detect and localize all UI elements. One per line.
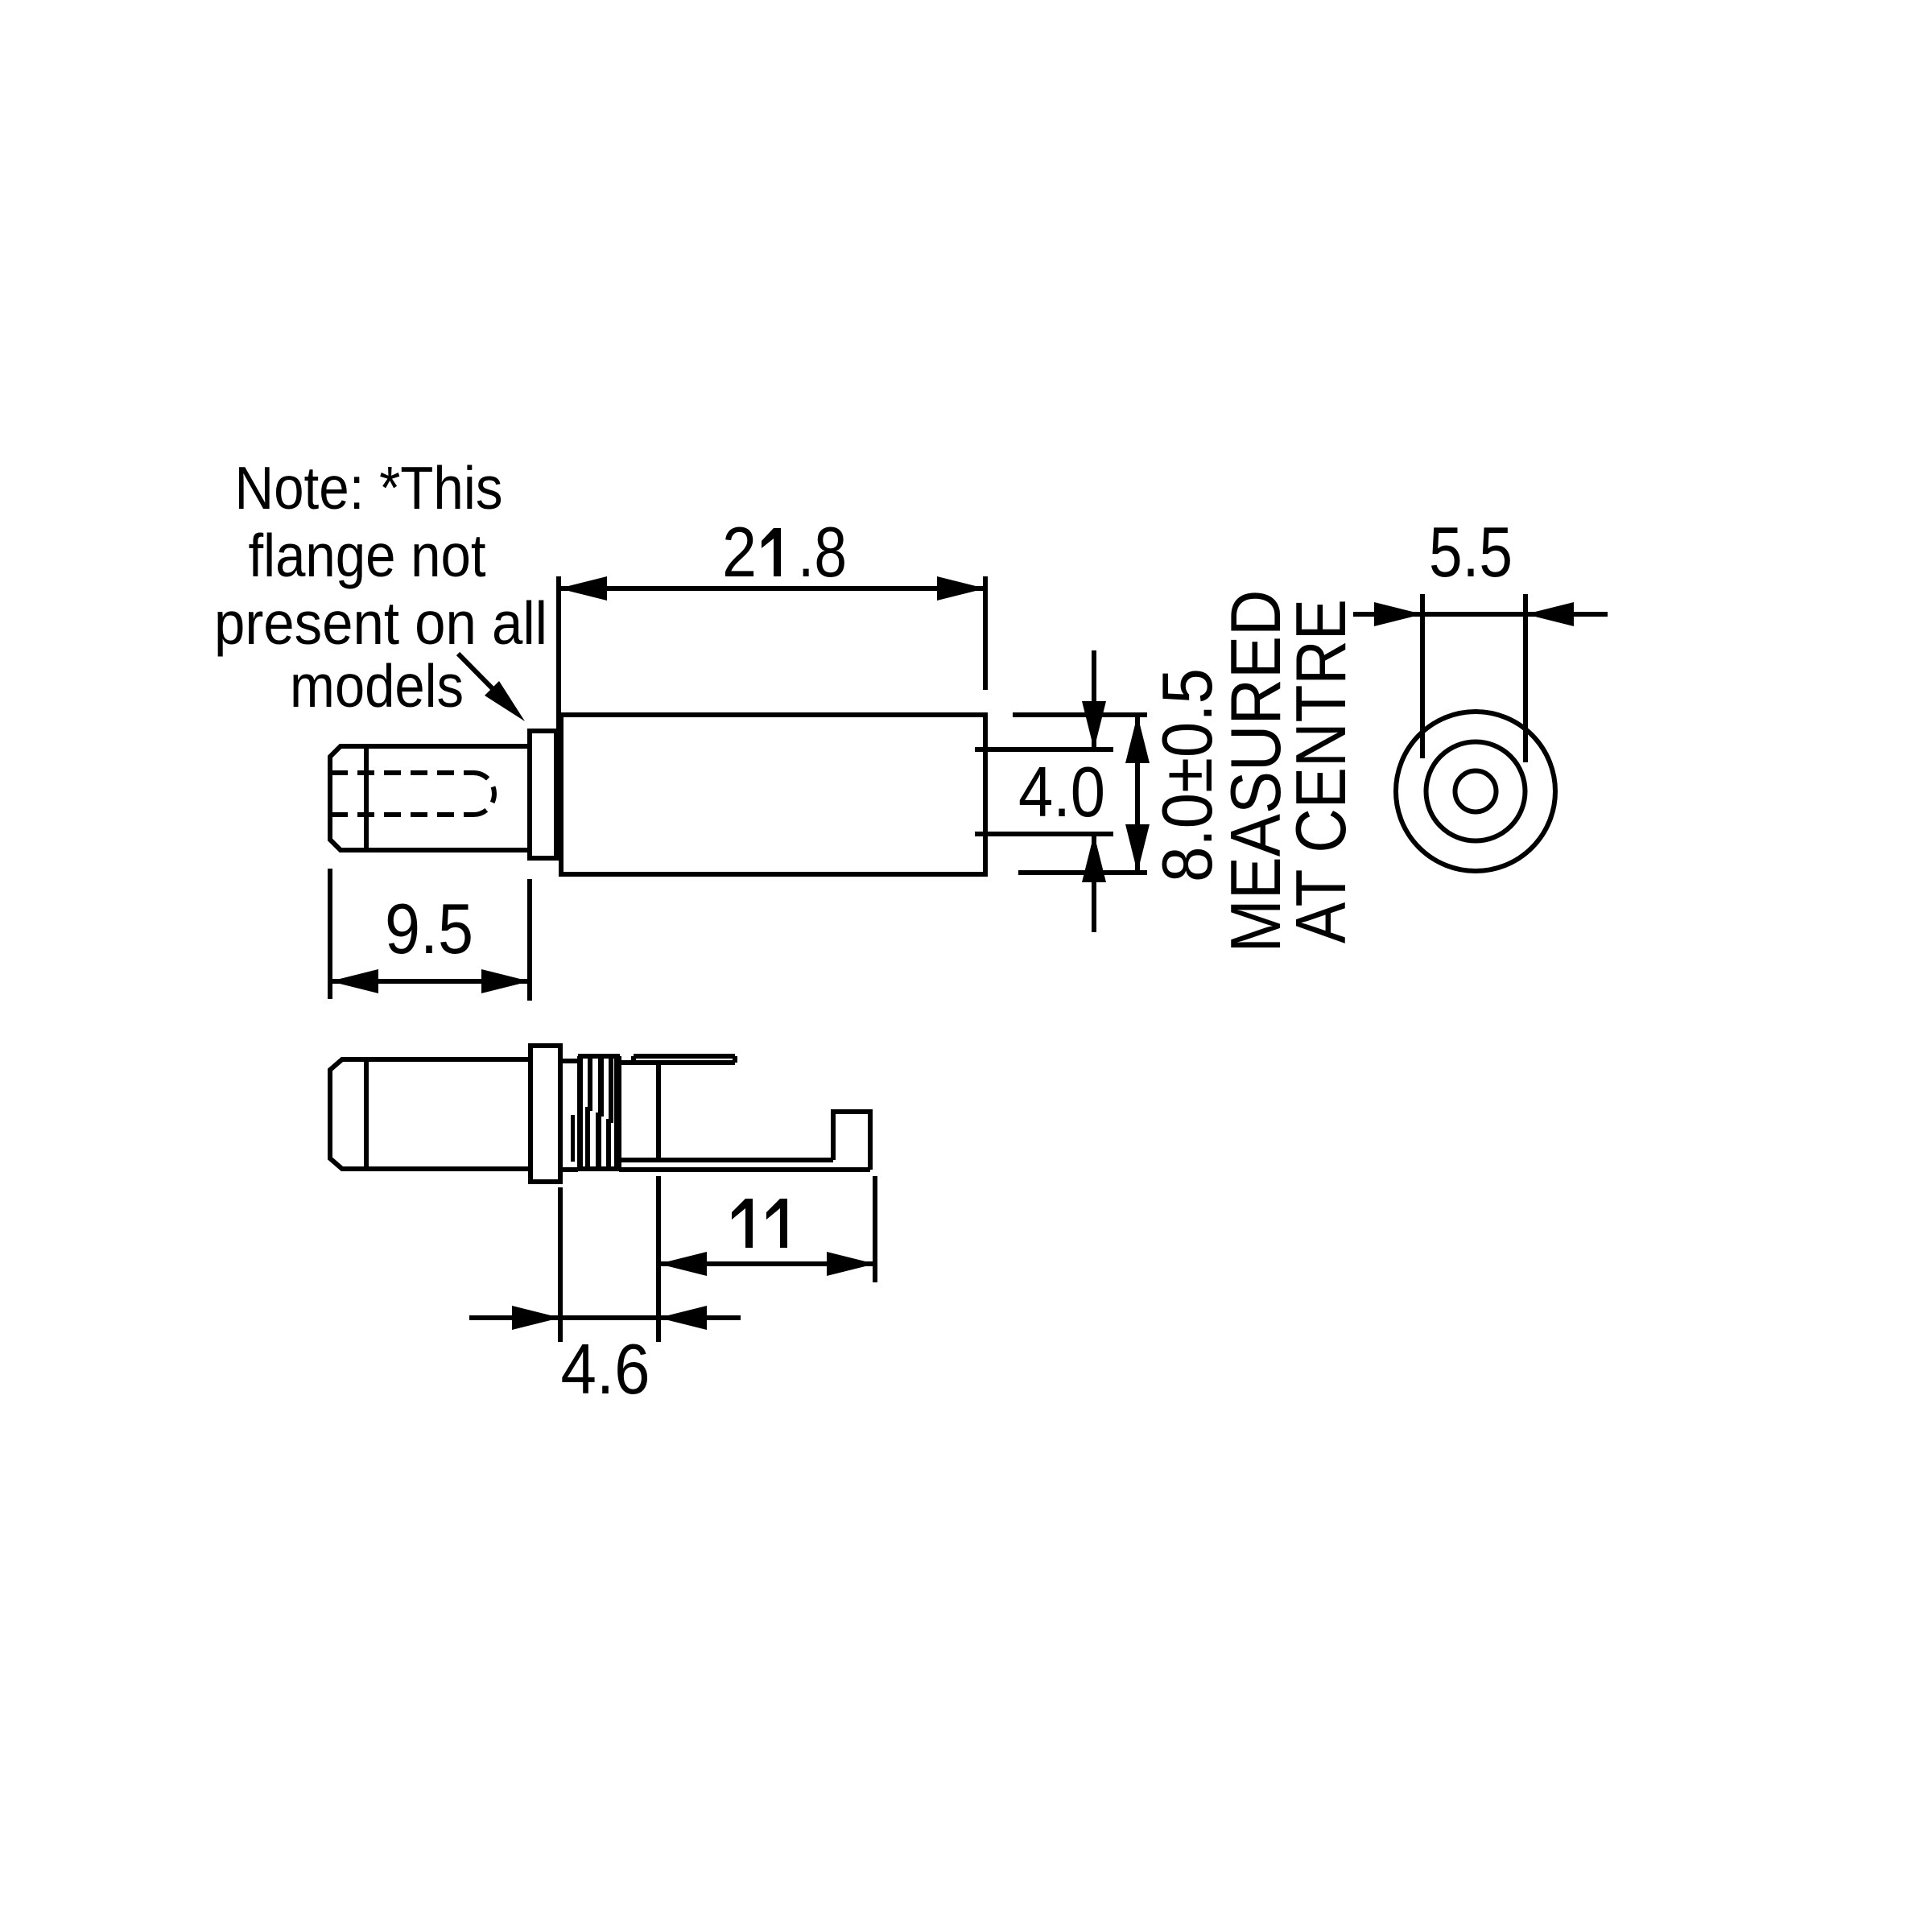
dim 5.5 left arrowhead (1374, 602, 1422, 626)
dim 4.0 top extension line (975, 747, 1113, 752)
dim 8.0 top extension line (1013, 712, 1147, 717)
bottom view: hook (833, 1112, 870, 1170)
bottom view: neck bottom line (560, 1167, 578, 1172)
bottom view: pin outline (330, 1059, 530, 1169)
dim 4.0 bottom extension line (975, 832, 1113, 836)
dim 21.8 left arrowhead (559, 576, 607, 601)
dim 11 right extension line (873, 1176, 877, 1282)
bottom view: top tab left edge (631, 1056, 636, 1063)
svg-text:.8: .8 (798, 512, 847, 592)
svg-text:4.6: 4.6 (561, 1329, 650, 1409)
side view: plug body (561, 715, 985, 874)
dim 21.8 left extension line (556, 576, 561, 729)
bottom view: neck top line (560, 1059, 578, 1063)
svg-text:Note: *This: Note: *This (235, 454, 503, 522)
dim 9.5 right extension line (527, 879, 532, 1001)
svg-text:AT CENTRE: AT CENTRE (1281, 599, 1360, 943)
dim 8.0 top arrowhead (1125, 715, 1150, 763)
bottom view: clamp back wall (656, 1063, 661, 1160)
side view: hidden pin-hole end arc dashed (473, 773, 494, 815)
dim 4.6 right arrowhead (658, 1306, 707, 1330)
dim 21.8 dimension line (559, 586, 985, 591)
front view outer circle (1396, 712, 1555, 871)
bottom view: tag plate upper line (619, 1158, 833, 1162)
svg-text:flange not: flange not (249, 522, 486, 589)
dim 8.0 bottom extension line (1018, 870, 1147, 875)
dim 11 left arrowhead (658, 1252, 707, 1276)
svg-text:5.5: 5.5 (1429, 512, 1513, 592)
dim 4.6 right tail (658, 1315, 741, 1320)
dim 4.6 left extension line (558, 1187, 563, 1342)
side view: tip end-cap line (364, 746, 369, 850)
dim 9.5 right arrowhead (481, 969, 530, 993)
bottom view: thread top line (578, 1054, 620, 1059)
dim 4.0 bottom arrow shaft (1092, 834, 1096, 932)
bottom view: top tab right edge (733, 1056, 737, 1063)
bottom view: thread bottom line (578, 1166, 620, 1171)
dim 9.5 left extension line (328, 869, 332, 999)
dim 5.5 left extension line (1420, 594, 1425, 758)
svg-text:models: models (290, 652, 464, 720)
dim 5.5 left tail (1353, 612, 1422, 617)
dim 11 right arrowhead (827, 1252, 875, 1276)
bottom view: thread hatching (571, 1056, 621, 1169)
front view inner circle (1455, 771, 1496, 812)
side view: hidden pin-hole top dashed (331, 770, 473, 775)
side view: flange (530, 731, 556, 858)
dim 21.8 right extension line (983, 576, 988, 690)
note leader arrowhead (485, 681, 525, 721)
dim 11 dimension line (658, 1261, 875, 1266)
dim 9.5 left arrowhead (330, 969, 378, 993)
dim 21.8 right arrowhead (937, 576, 985, 601)
bottom view: pin end-cap line (364, 1059, 369, 1169)
svg-text:present on all: present on all (214, 589, 547, 657)
bottom view: top tab upper line (634, 1054, 735, 1059)
svg-text:2: 2 (722, 512, 757, 592)
dim 4.6 dimension line between (560, 1315, 658, 1320)
bottom view: top tab lower line (619, 1060, 735, 1065)
svg-text:4.0: 4.0 (1018, 752, 1105, 832)
note leader line (458, 654, 515, 712)
side view: tip barrel outline (330, 746, 530, 850)
dim 4.0 top arrow shaft (1092, 650, 1096, 749)
dim 5.5 right tail (1525, 612, 1608, 617)
bottom view: tag plate lower line (619, 1167, 870, 1172)
dim 9.5 dimension line (330, 979, 530, 984)
dim 8.0 bottom arrowhead (1125, 824, 1150, 873)
dim 5.5 right arrowhead (1525, 602, 1574, 626)
svg-text:9.5: 9.5 (385, 889, 473, 968)
dim 5.5 right extension line (1523, 594, 1528, 762)
dim 11 label (732, 1199, 753, 1248)
dim 11 left extension line (656, 1176, 661, 1342)
dim 4.6 left arrowhead (512, 1306, 560, 1330)
dim 4.6 left tail (469, 1315, 560, 1320)
bottom view: flange (530, 1046, 560, 1182)
dim 4.0 top arrowhead (1082, 701, 1106, 749)
front view middle circle (1426, 742, 1525, 841)
side view: hidden pin-hole bottom dashed (331, 812, 473, 817)
dim 4.0 bottom arrowhead (1082, 834, 1106, 882)
dim 8.0 dimension line (1135, 715, 1140, 873)
dim 5.5 dimension line (1422, 612, 1525, 617)
